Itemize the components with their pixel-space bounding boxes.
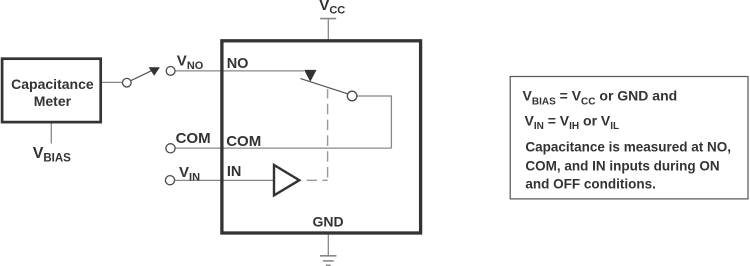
svg-text:COM, and IN inputs during ON: COM, and IN inputs during ON (525, 159, 719, 174)
svg-text:GND: GND (312, 214, 343, 230)
svg-text:COM: COM (176, 130, 211, 147)
switch S1 pole circle (123, 78, 132, 87)
svg-text:COM: COM (226, 133, 261, 150)
node VCOM terminal circle (166, 144, 175, 153)
internal switch arrowhead at NO (304, 70, 316, 82)
svg-text:Capacitance is measured at NO,: Capacitance is measured at NO, (525, 140, 731, 155)
switch S1 arrowhead (149, 67, 160, 76)
wire: VIN terminal to buffer input (175, 179, 274, 181)
wire: VBIAS stem below capacitance meter (50, 123, 52, 144)
wire: VCC stem into DUT (327, 19, 329, 40)
note box (510, 77, 748, 199)
wire: capacitance meter output to switch pole (102, 81, 124, 83)
wire: GND stem below DUT (327, 233, 329, 255)
internal switch throw circle (347, 91, 357, 101)
control dashed line from buffer to switch (302, 179, 328, 181)
svg-text:Capacitance: Capacitance (11, 76, 94, 92)
wire: COM line from VCOM terminal through DUT to switch throw (175, 147, 392, 149)
capacitance meter box (2, 59, 101, 122)
DUT box (analog switch) (222, 41, 421, 233)
ground symbol (320, 255, 337, 257)
svg-text:VIN: VIN (179, 164, 200, 183)
svg-text:VCC: VCC (319, 0, 345, 16)
internal switch lever (301, 79, 349, 94)
wire: VNO terminal to NO pin (175, 70, 304, 72)
node VIN terminal circle (165, 176, 174, 185)
svg-text:NO: NO (227, 56, 249, 72)
switch S1 lever (131, 71, 152, 81)
node VNO terminal circle (166, 67, 175, 76)
svg-text:Meter: Meter (34, 93, 72, 109)
svg-text:IN: IN (227, 164, 242, 180)
svg-text:VNO: VNO (177, 53, 204, 72)
wire: internal switch throw connection (357, 96, 392, 148)
svg-text:VBIAS: VBIAS (33, 145, 71, 164)
svg-text:and OFF conditions.: and OFF conditions. (525, 176, 656, 191)
buffer U1 (driver triangle) (274, 165, 299, 195)
VCC rail tick (320, 18, 336, 20)
